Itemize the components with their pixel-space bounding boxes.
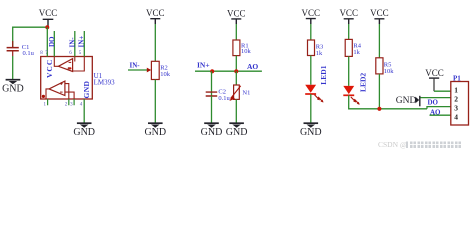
power VCC port 6 (above R5) — [370, 8, 389, 24]
wire C1 to ground — [12, 56, 14, 79]
wire R2 to ground — [154, 80, 156, 123]
svg-text:VCC: VCC — [425, 68, 444, 78]
potentiometer R2 10k body — [151, 61, 170, 79]
junction VCC1/C1 — [45, 25, 49, 29]
wire N1 to ground — [235, 99, 237, 122]
U1 comparator B input wires from pins 6,5 — [73, 57, 85, 72]
svg-text:1k: 1k — [353, 49, 360, 56]
resistor R5 10k — [376, 58, 395, 75]
U1 pin 5 wire (IN+) — [83, 31, 85, 57]
watermark — [378, 140, 461, 149]
svg-text:LED2: LED2 — [358, 73, 367, 92]
svg-text:VCC: VCC — [370, 8, 389, 18]
svg-text:GND: GND — [201, 127, 223, 138]
svg-text:10k: 10k — [241, 48, 252, 55]
junction rail/C2 — [210, 69, 214, 73]
svg-text:IN+: IN+ — [77, 36, 85, 48]
net label AO at P1 pin 4 — [430, 108, 441, 116]
capacitor C1 — [7, 41, 35, 57]
net label IN+ at U1 pin 5 — [77, 36, 85, 48]
designator LED1 (rotated) — [319, 65, 328, 84]
resistor R3 1k — [308, 40, 324, 57]
svg-text:2: 2 — [454, 94, 458, 103]
svg-text:VCC: VCC — [339, 8, 358, 18]
ground GND under R2 — [144, 123, 166, 138]
wire rail to N1 — [235, 71, 237, 85]
U1 VCC pin name (rotated, inside) — [45, 59, 54, 78]
svg-text:10k: 10k — [160, 71, 171, 78]
junction R5/DO rail — [377, 107, 381, 111]
net label DO at U1 pin 7 — [48, 36, 56, 47]
svg-text:DO: DO — [48, 36, 56, 47]
wire VCC5 to R4 — [348, 24, 350, 39]
svg-text:VCC: VCC — [39, 8, 58, 18]
wire VCC6 to R5 — [378, 24, 380, 58]
svg-text:N1: N1 — [242, 90, 250, 97]
svg-text:AO: AO — [247, 62, 258, 71]
U1 GND pin name (rotated, inside) — [82, 80, 91, 98]
svg-text:IN-: IN- — [68, 37, 76, 48]
wire R3 to LED1 — [310, 56, 312, 85]
svg-text:8: 8 — [40, 51, 43, 56]
power GND port (arrow style) at P1 pin 2 — [396, 96, 420, 107]
sensor element N1 — [229, 85, 250, 101]
U1 bottom pin stubs — [48, 99, 75, 105]
svg-text:GND: GND — [300, 127, 322, 138]
wire VCC2 to R2 — [154, 24, 156, 61]
wire U1 pin 4 to ground — [83, 99, 85, 123]
wire C2 to ground — [211, 96, 213, 123]
U1 comparator A triangle (bottom) — [49, 81, 65, 95]
wire rail to C2 — [211, 71, 213, 96]
R2 wiper arrow wire (net IN-) — [128, 68, 151, 73]
svg-text:4: 4 — [80, 103, 83, 108]
svg-text:IN-: IN- — [130, 62, 141, 70]
svg-text:LM393: LM393 — [94, 78, 116, 86]
svg-text:GND: GND — [226, 127, 248, 138]
svg-text:GND: GND — [82, 80, 91, 98]
ground GND under C2 — [201, 123, 223, 138]
resistor R1 10k — [233, 40, 252, 56]
power VCC port 7 (at P1 pin 1) — [425, 68, 444, 78]
svg-text:4: 4 — [454, 112, 458, 121]
svg-text:VCC: VCC — [227, 8, 246, 18]
svg-text:1: 1 — [454, 85, 458, 94]
svg-text:GND: GND — [396, 96, 417, 106]
U1 pin 6 wire (IN-) — [74, 31, 76, 57]
U1 comparator B triangle (top) — [58, 59, 72, 72]
U1 comparator A output wire to pin 1 — [46, 89, 49, 99]
wire R4 to LED2 — [348, 56, 350, 86]
designator LED2 (rotated) — [358, 73, 367, 92]
U1 top pin numbers 8 7 6 5 — [40, 51, 82, 56]
svg-text:10k: 10k — [384, 68, 395, 75]
svg-text:P1: P1 — [453, 75, 461, 83]
svg-text:LED1: LED1 — [319, 65, 328, 84]
ground GND under LED1 — [300, 123, 322, 138]
wire VCC1 rail to C1 and U1 pin 8 — [13, 27, 48, 47]
U1 comparator A input wires to pins 2,3 — [65, 84, 74, 99]
svg-text:VCC: VCC — [302, 8, 321, 18]
wire R1 to IN+/AO rail — [235, 56, 237, 72]
wire AO to P1 pin 4 — [430, 114, 451, 116]
op-amp U1 LM393 chip body — [41, 57, 115, 100]
junction rail/N1 — [234, 69, 238, 73]
svg-text:0.1u: 0.1u — [23, 50, 35, 57]
svg-text:1k: 1k — [316, 50, 323, 57]
wire IN+/AO horizontal rail — [195, 70, 262, 72]
svg-text:CSDN @: CSDN @ — [378, 140, 407, 149]
U1 pin 8 wire — [46, 27, 48, 56]
wire VCC3 to R1 — [235, 24, 237, 40]
svg-text:3: 3 — [70, 103, 73, 108]
wire GND port to P1 pin 2 — [420, 97, 450, 99]
power VCC port 2 (above R2) — [146, 8, 165, 24]
wire LED2 to DO rail — [349, 95, 427, 109]
wire DO rail jog up to P1 pin 3 — [427, 107, 451, 109]
power VCC port 3 (above R1) — [227, 8, 246, 24]
net label IN+ on rail — [197, 60, 210, 69]
svg-text:GND: GND — [73, 127, 95, 138]
wire LED1 to ground — [310, 94, 312, 123]
wire VCC4 to R3 — [310, 24, 312, 40]
ground GND under U1 — [73, 123, 95, 138]
wire VCC7 to P1 pin 1 — [434, 78, 451, 91]
svg-text:VCC: VCC — [45, 59, 54, 78]
svg-text:IN+: IN+ — [197, 60, 210, 69]
svg-text:0.1u: 0.1u — [218, 95, 230, 102]
resistor R4 1k — [345, 39, 362, 56]
svg-text:VCC: VCC — [146, 8, 165, 18]
LED LED1 — [305, 85, 323, 103]
power VCC port 4 (above R3) — [302, 8, 321, 24]
net label IN- at R2 wiper — [130, 62, 141, 70]
net label DO at P1 pin 3 — [428, 98, 439, 106]
power VCC port 5 (above R4) — [339, 8, 358, 24]
svg-text:GND: GND — [2, 84, 24, 95]
svg-text:DO: DO — [428, 98, 439, 106]
wire R5 to DO rail — [378, 74, 380, 109]
U1 junction dot near pin 1 — [42, 95, 45, 98]
svg-text:3: 3 — [454, 103, 458, 112]
svg-text:2: 2 — [65, 103, 68, 108]
capacitor C2 — [206, 88, 231, 102]
U1 pin 7 wire (DO) — [53, 31, 55, 57]
svg-text:5: 5 — [79, 51, 82, 56]
power VCC port 1 (top left) — [39, 8, 58, 27]
LED LED2 — [343, 86, 359, 105]
U1 comparator B output wire to pin 7 — [54, 57, 58, 67]
U1 bottom pin numbers 1 2 3 4 — [44, 103, 83, 108]
svg-text:AO: AO — [430, 108, 441, 116]
ground GND under N1 — [226, 123, 248, 138]
net label IN- at U1 pin 6 — [68, 37, 76, 48]
svg-text:1: 1 — [44, 103, 47, 108]
svg-text:GND: GND — [144, 127, 166, 138]
ground GND under C1 — [2, 80, 24, 95]
net label AO on rail — [247, 62, 258, 71]
connector P1 — [451, 75, 469, 126]
svg-text:6: 6 — [69, 51, 72, 56]
